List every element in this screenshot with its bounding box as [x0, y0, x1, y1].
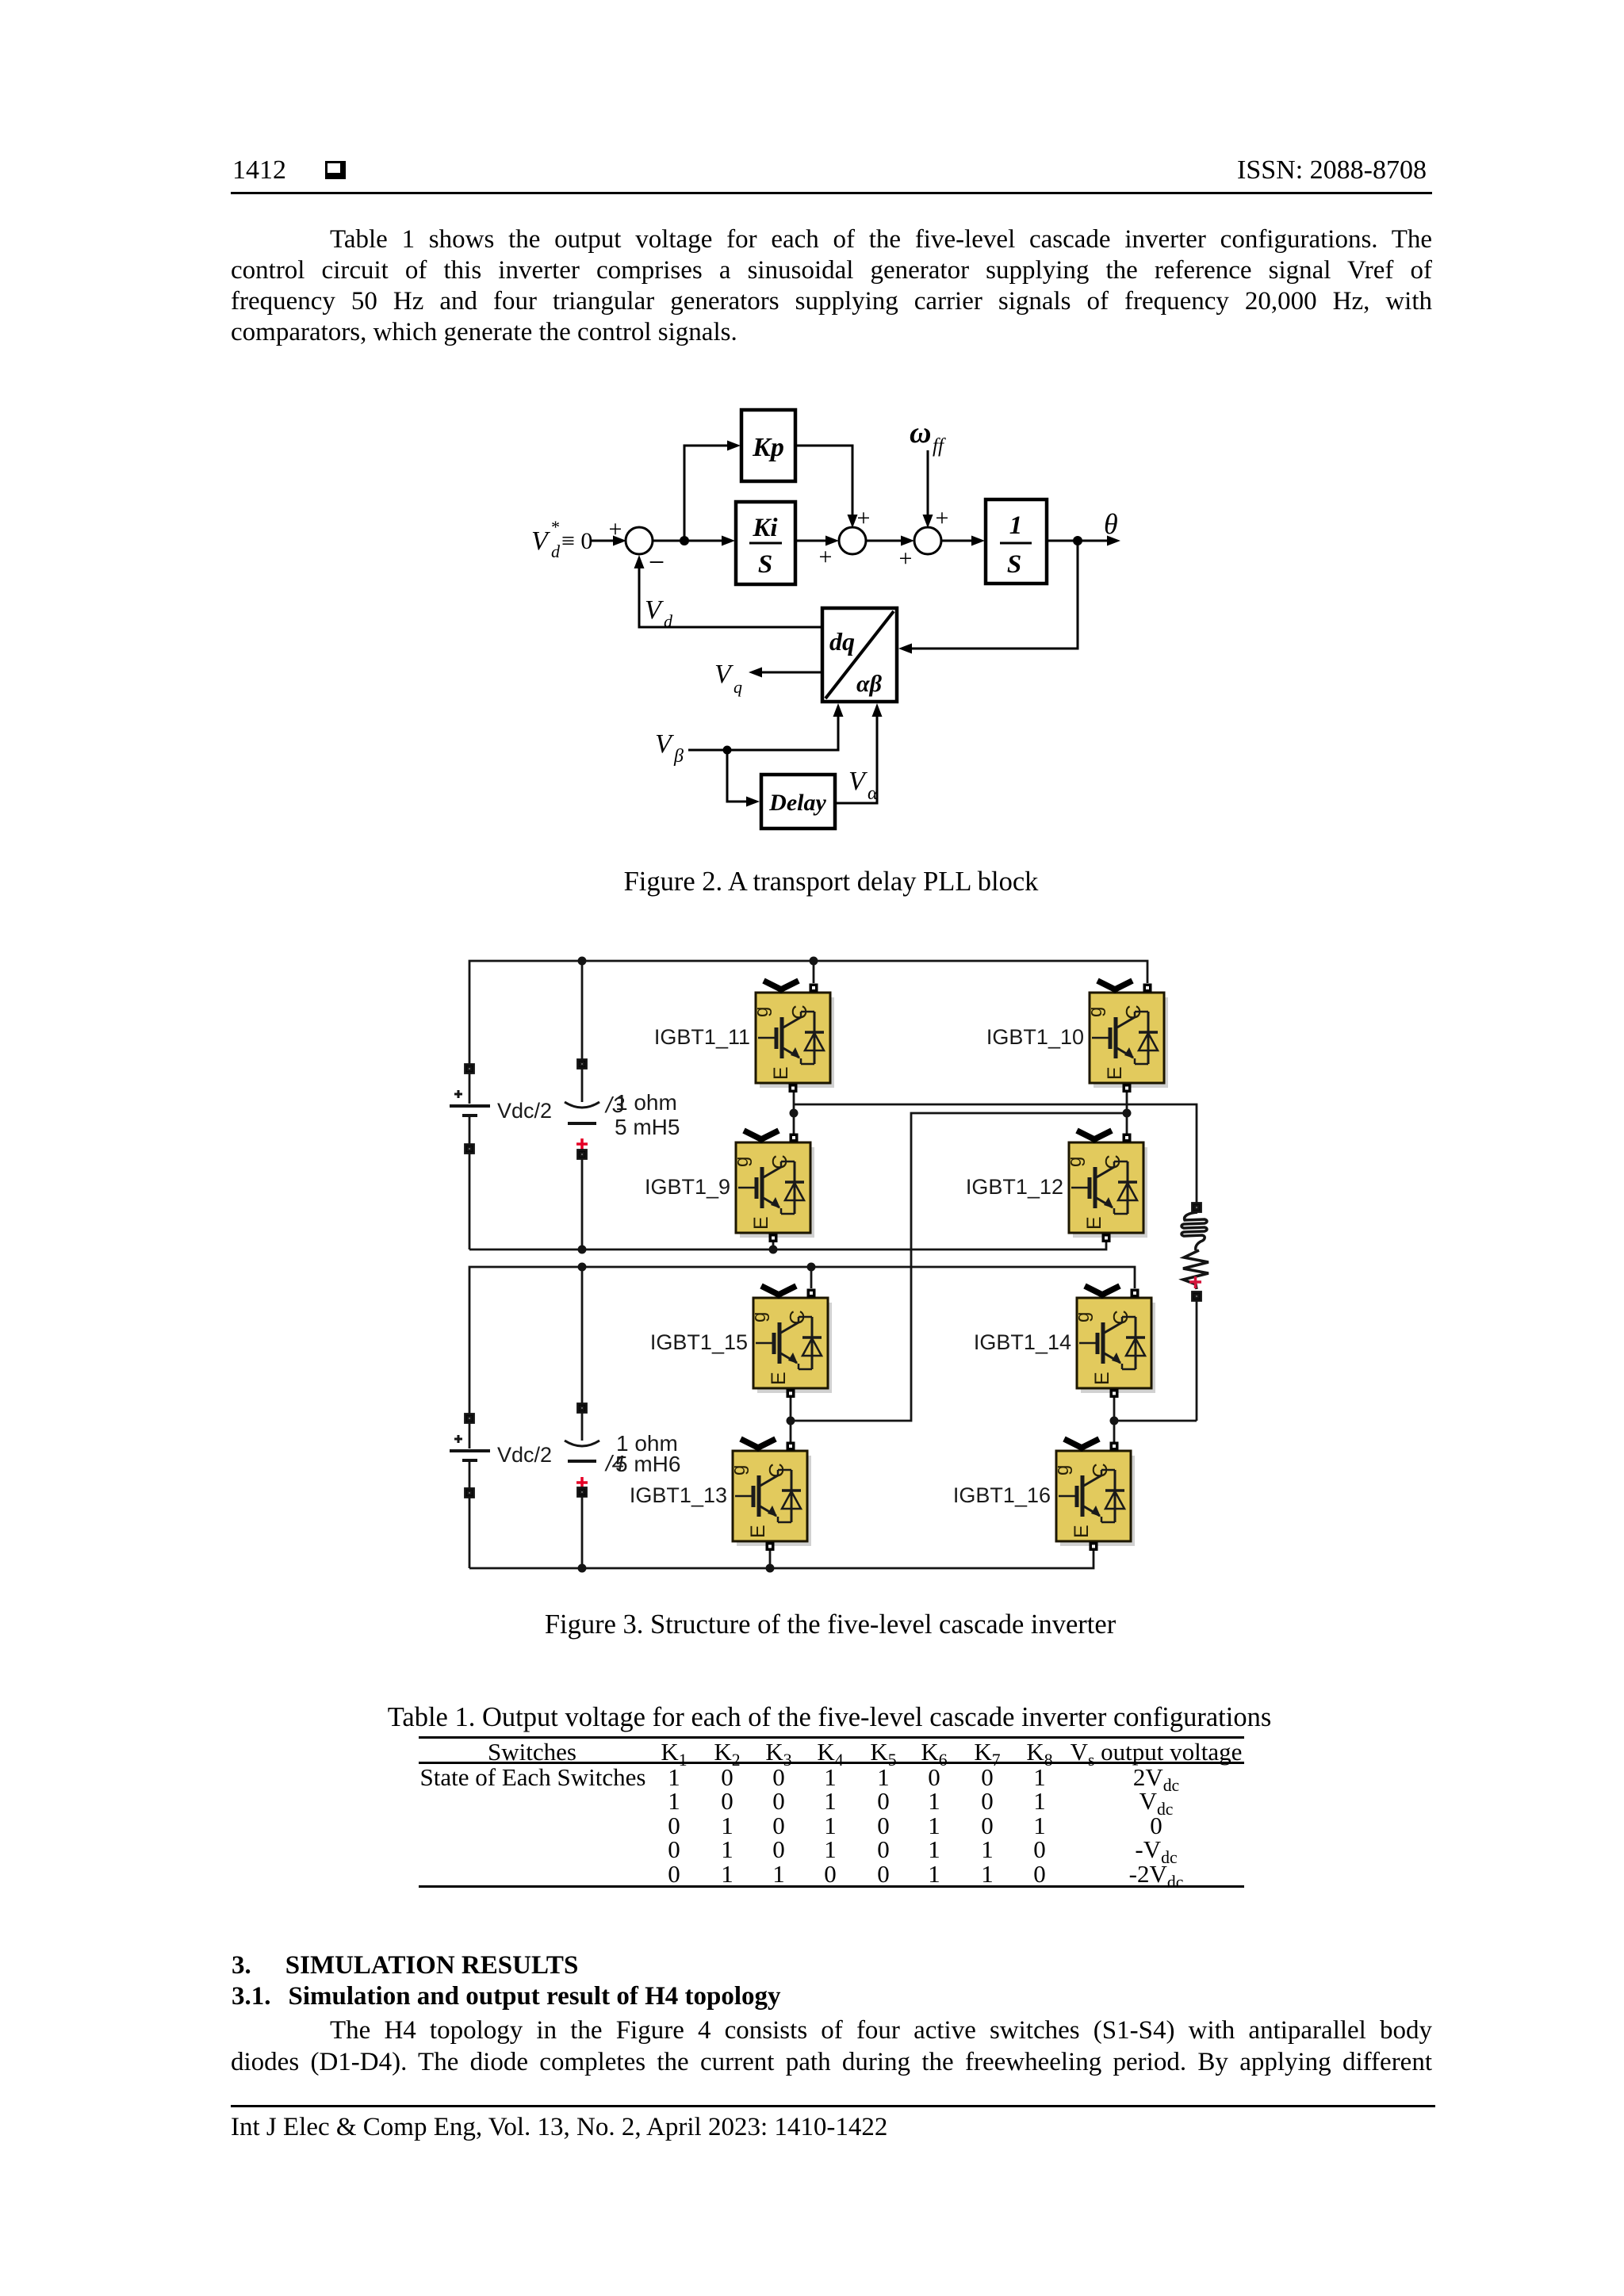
node dot rail4 cap2 [578, 1564, 587, 1573]
node Vq label [714, 660, 742, 697]
svg-text:θ: θ [1104, 508, 1118, 540]
svg-text:+: + [899, 545, 913, 572]
table 1 title [388, 1702, 1272, 1733]
header page number [232, 155, 286, 186]
svg-text:−: − [649, 546, 665, 578]
wire top rail cell2 [469, 1267, 1135, 1414]
section heading 3.1 [232, 1982, 781, 2011]
svg-text:+: + [936, 505, 949, 531]
wire drop to IGBT1_11 C [813, 961, 815, 983]
wire Ki/S to S2 [795, 536, 839, 546]
svg-text:IGBT1_16: IGBT1_16 [953, 1483, 1051, 1507]
svg-text:β: β [673, 746, 684, 767]
battery B2 Vdc/2 [450, 1414, 490, 1569]
wire S1 to Ki/S [652, 536, 735, 546]
svg-text:V: V [714, 660, 734, 689]
svg-text:1: 1 [1009, 511, 1023, 540]
footer text [231, 2113, 887, 2142]
wire bottom rail cell2 [469, 1551, 1094, 1568]
transistor IGBT1_16 [1051, 1439, 1135, 1551]
wire branch to Kp [684, 441, 741, 541]
wire left leg cell1 [793, 1093, 795, 1134]
svg-text:dq: dq [829, 627, 855, 656]
svg-text:≡ 0: ≡ 0 [561, 528, 592, 554]
wire right leg cell2 [1113, 1398, 1116, 1442]
wire cap1 upper [581, 961, 584, 1059]
svg-text:d: d [551, 541, 561, 561]
wire cascade B1 to A2 [791, 1113, 1127, 1421]
svg-text:S: S [1007, 550, 1021, 579]
node dot rail leg1 [810, 957, 818, 966]
node dot rail2 cap1 [578, 1246, 587, 1254]
wire input to S1 [592, 536, 626, 546]
table rule bottom [419, 1885, 1244, 1888]
svg-text:Ki: Ki [752, 514, 778, 542]
svg-text:IGBT1_13: IGBT1_13 [630, 1483, 727, 1507]
wire cap2 upper [581, 1267, 584, 1403]
wire output A1 to load [794, 1104, 1197, 1203]
wire left leg cell2 [790, 1398, 792, 1442]
transistor IGBT1_15 [749, 1286, 832, 1398]
transistor IGBT1_13 [728, 1439, 811, 1551]
svg-text:IGBT1_12: IGBT1_12 [966, 1175, 1063, 1199]
svg-text:V: V [655, 729, 675, 759]
transistor IGBT1_14 [1072, 1286, 1155, 1398]
wire S2 to S3 [865, 536, 914, 546]
wire Delay to dq [835, 703, 883, 803]
transistor IGBT1_9 [731, 1131, 814, 1242]
node Valpha label [848, 767, 878, 804]
transistor IGBT1_12 [1064, 1131, 1147, 1242]
wire Vd feedback [634, 555, 823, 627]
footer rule [231, 2105, 1435, 2107]
svg-text:V: V [848, 767, 868, 796]
transistor IGBT1_10 [1085, 981, 1168, 1093]
summing junction S2 [839, 527, 866, 554]
wire S3 to 1/S [940, 536, 985, 546]
svg-text:S: S [758, 550, 772, 579]
svg-text:V: V [645, 595, 665, 625]
node Vd* input label [531, 517, 592, 561]
node omega_ff label [910, 416, 946, 457]
paragraph 1 [231, 225, 1432, 256]
figure 2 caption [624, 867, 1039, 897]
header rule [231, 192, 1432, 194]
block dq/alphabeta [822, 608, 897, 702]
wire Vq output [749, 668, 822, 678]
block Ki/S [736, 502, 795, 584]
wire bottom rail cell1 [469, 1242, 1106, 1249]
figure 3 caption [545, 1609, 1116, 1640]
svg-text:IGBT1_15: IGBT1_15 [650, 1330, 748, 1354]
block 1/S [986, 499, 1047, 584]
table rule top [419, 1736, 1244, 1739]
wire IGBT1_13 E to rail [769, 1551, 772, 1568]
capacitor C2 [565, 1404, 599, 1569]
node dot rail4 leg2 [766, 1564, 775, 1573]
svg-text:5 mH6: 5 mH6 [615, 1452, 680, 1476]
block Kp [741, 410, 795, 481]
node dot B2 [1110, 1417, 1119, 1425]
header ISSN [1237, 155, 1427, 186]
node output dot [1073, 536, 1082, 545]
node branch dot [680, 536, 689, 545]
label 1 ohm 5 mH6 [604, 1431, 680, 1476]
svg-text:IGBT1_9: IGBT1_9 [645, 1175, 730, 1199]
capacitor C1 [565, 1060, 599, 1250]
svg-text:Kp: Kp [752, 433, 784, 462]
node dot A2 [787, 1417, 795, 1425]
svg-text:αβ: αβ [856, 671, 883, 697]
wire right leg cell1 [1126, 1093, 1128, 1134]
wire Vbeta to dq [688, 703, 844, 750]
svg-text:IGBT1_14: IGBT1_14 [974, 1330, 1071, 1354]
node Vbeta dot [723, 746, 732, 755]
section heading 3 [232, 1951, 578, 1980]
wire Vbeta to Delay [727, 750, 760, 807]
node dot rail3 leg2 [807, 1263, 816, 1272]
svg-text:+: + [857, 505, 871, 531]
svg-text:ff: ff [933, 435, 946, 457]
summing junction S3 [914, 527, 941, 554]
label 1 ohm 5 mH5 [604, 1090, 680, 1139]
node Vbeta label [655, 729, 684, 767]
node Vd label [645, 595, 673, 631]
svg-text:Vdc/2: Vdc/2 [497, 1443, 552, 1467]
svg-text:d: d [664, 611, 673, 631]
svg-text:+: + [819, 544, 833, 570]
wire feedback to dq [898, 541, 1078, 654]
node dot rail3 cap2 [578, 1263, 587, 1272]
wire drop to IGBT1_15 C [810, 1267, 813, 1288]
wire top rail cell1 [469, 961, 1147, 1065]
svg-text:5 mH5: 5 mH5 [615, 1115, 680, 1139]
svg-text:+: + [609, 516, 622, 542]
wire output theta [1047, 536, 1120, 546]
node dot rail2 leg1 [769, 1246, 778, 1254]
svg-text:1 ohm: 1 ohm [615, 1090, 677, 1115]
node dot B1 [1123, 1109, 1132, 1118]
wire omega to S3 [923, 450, 933, 528]
svg-text:α: α [868, 783, 878, 804]
svg-text:Delay: Delay [768, 790, 826, 816]
svg-text:Vdc/2: Vdc/2 [497, 1099, 552, 1123]
load RL series [1114, 1203, 1208, 1422]
wire Kp to S2 [795, 446, 858, 528]
svg-text:q: q [733, 677, 742, 697]
header journal icon [325, 161, 346, 179]
node dot rail cap1 [578, 957, 587, 966]
svg-text:IGBT1_10: IGBT1_10 [986, 1025, 1084, 1049]
svg-text:*: * [550, 517, 559, 537]
transistor IGBT1_11 [751, 981, 834, 1093]
svg-text:IGBT1_11: IGBT1_11 [654, 1025, 750, 1049]
battery B1 Vdc/2 [450, 1065, 490, 1250]
svg-text:ω: ω [910, 416, 931, 450]
summing junction S1 [626, 527, 653, 554]
block Delay [761, 775, 835, 828]
wire IGBT1_9 E to rail [772, 1242, 775, 1249]
node dot A1 [790, 1109, 799, 1118]
paragraph 2 [231, 2016, 1432, 2047]
table rule under header [419, 1762, 1244, 1764]
svg-text:V: V [531, 526, 551, 556]
